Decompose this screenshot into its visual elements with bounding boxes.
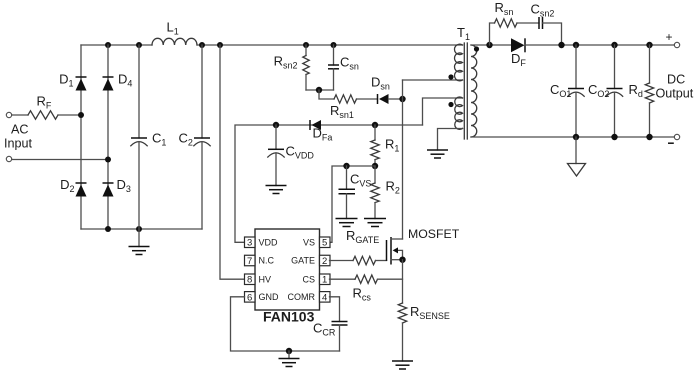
node R1 top: [372, 122, 378, 128]
polarity dot primary: [448, 74, 453, 79]
node junction top rail at HV riser: [217, 42, 223, 48]
pin 1 CS box: [302, 274, 330, 286]
AC input terminal lower: [6, 156, 11, 161]
diode D3: [103, 177, 131, 197]
label AC Input: [4, 123, 33, 151]
resistor Rsn: [490, 0, 540, 45]
node CO1 top: [573, 42, 579, 48]
node Rd top: [646, 42, 652, 48]
node bottom rail at C1 ground: [136, 226, 142, 232]
svg-text:Output: Output: [656, 87, 694, 101]
transformer T1 core: [457, 25, 470, 139]
svg-text:N.C: N.C: [259, 256, 275, 266]
capacitor C1: [131, 45, 167, 229]
svg-text:5: 5: [322, 238, 327, 249]
ground IC: [279, 351, 300, 367]
pin 7 NC box: [245, 255, 275, 267]
wire top rail right segment: [197, 44, 463, 46]
pin 2 GATE box: [291, 255, 330, 267]
capacitor CO2: [588, 45, 623, 137]
svg-text:CS: CS: [302, 275, 315, 285]
svg-text:3: 3: [247, 238, 252, 249]
svg-text:MOSFET: MOSFET: [408, 227, 460, 241]
transformer secondary winding: [471, 45, 477, 137]
pin 8 HV box: [245, 274, 272, 286]
node CO1 bottom: [573, 134, 579, 140]
node Dsn anode to drain: [399, 96, 405, 102]
svg-text:1: 1: [322, 275, 327, 286]
svg-text:6: 6: [247, 292, 252, 303]
pin 4 COMR box: [288, 292, 331, 304]
wire aux top lead: [423, 98, 463, 125]
wire secondary top lead: [471, 44, 511, 46]
capacitor CCR: [313, 297, 348, 351]
wire aux sense line: [235, 125, 423, 242]
svg-text:FAN103: FAN103: [263, 309, 315, 325]
output terminal plus: [666, 30, 680, 48]
pin 5 VS box: [303, 237, 330, 249]
diode DFa: [310, 120, 332, 142]
transformer primary winding: [454, 44, 462, 81]
ground CVDD: [266, 186, 287, 194]
transistor Q1 MOSFET: [387, 227, 460, 265]
svg-text:AC: AC: [11, 123, 29, 137]
wire aux bottom to ground: [438, 129, 463, 151]
wire top rail left segment: [81, 44, 152, 46]
diode Dsn: [371, 75, 403, 105]
resistor Rsn2: [274, 45, 310, 90]
inductor L1: [152, 20, 197, 46]
node snubber junction: [316, 87, 322, 93]
wire bridge bottom rail: [81, 228, 202, 230]
node CO2 bottom: [611, 134, 617, 140]
capacitor C2: [179, 45, 211, 229]
node MOSFET source: [399, 257, 405, 263]
svg-text:+: +: [666, 30, 673, 44]
wire HV riser: [220, 45, 245, 279]
transformer aux winding: [455, 97, 463, 129]
capacitor CVDD: [268, 125, 315, 186]
node junction top rail at Csn: [331, 42, 337, 48]
node junction top rail at Rsn2: [303, 42, 309, 48]
node snubber end: [558, 42, 564, 48]
svg-text:VDD: VDD: [259, 238, 279, 248]
node AC lower to bridge junction: [105, 157, 111, 163]
svg-text:COMR: COMR: [288, 292, 316, 302]
node junction top rail at C1: [136, 42, 142, 48]
diode D4: [103, 72, 133, 91]
resistor RF: [12, 94, 81, 120]
node junction top rail at D4 branch: [105, 42, 111, 48]
AC input terminal upper: [6, 112, 11, 117]
diode D2: [60, 177, 86, 197]
resistor R1: [371, 125, 400, 166]
resistor RSENSE: [398, 303, 450, 361]
wire bridge right leg: [107, 45, 109, 229]
wire secondary bottom lead: [471, 136, 674, 138]
node CVS tap: [343, 163, 349, 169]
resistor R2: [371, 166, 400, 219]
pin 3 VDD box: [245, 237, 279, 249]
node CO2 top: [611, 42, 617, 48]
wire source down: [402, 260, 404, 303]
node CVDD tap: [273, 122, 279, 128]
node snubber start: [486, 42, 492, 48]
ground R2: [364, 219, 386, 227]
wire primary bottom lead: [403, 79, 463, 81]
svg-text:8: 8: [247, 275, 252, 286]
svg-text:VS: VS: [303, 238, 315, 248]
output terminal minus: [668, 134, 680, 143]
node bottom rail at D3: [105, 226, 111, 232]
svg-text:DC: DC: [667, 73, 685, 87]
svg-text:7: 7: [247, 256, 252, 267]
IC U1 FAN103 body: [255, 229, 320, 325]
polarity dot secondary: [474, 46, 479, 51]
diode DF: [511, 38, 526, 68]
wire VS riser: [330, 166, 376, 242]
pin 6 GND box: [245, 292, 280, 304]
label DC Output: [656, 73, 694, 101]
node Rd bottom: [646, 134, 652, 140]
wire MOSFET drain line: [402, 80, 404, 239]
node R1 R2 junction: [372, 163, 378, 169]
capacitor CVS: [339, 166, 372, 219]
wire snubber to Rsn1: [319, 90, 334, 99]
ground bridge: [129, 229, 150, 255]
ground RSENSE: [392, 361, 413, 369]
ground secondary triangle: [568, 137, 586, 176]
diode D1: [59, 72, 86, 91]
node IC ground: [286, 348, 292, 354]
wire secondary top lead right: [525, 44, 674, 46]
wire snubber bottom link: [306, 89, 334, 91]
node junction top rail at C2: [199, 42, 205, 48]
svg-text:HV: HV: [259, 275, 272, 285]
resistor RGATE: [330, 228, 387, 265]
svg-text:GATE: GATE: [291, 256, 315, 266]
polarity dot aux: [448, 102, 453, 107]
capacitor Csn: [328, 45, 359, 90]
capacitor CO1: [550, 45, 584, 137]
node RF to bridge junction: [78, 112, 84, 118]
wire bridge left leg: [80, 45, 82, 229]
svg-text:2: 2: [322, 256, 327, 267]
svg-text:Input: Input: [4, 137, 33, 151]
wire GND down: [231, 297, 340, 351]
resistor Rd: [629, 45, 654, 137]
ground aux: [427, 150, 448, 158]
svg-text:GND: GND: [259, 292, 280, 302]
resistor Rcs: [330, 275, 403, 302]
resistor Rsn1: [330, 95, 378, 120]
svg-text:4: 4: [322, 292, 327, 303]
capacitor Csn2: [531, 2, 562, 46]
ground CVS: [336, 219, 358, 227]
wire AC lower to bridge: [12, 159, 108, 161]
